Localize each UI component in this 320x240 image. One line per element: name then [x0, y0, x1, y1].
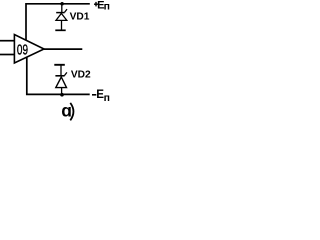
node junction dot VD1 top — [60, 2, 64, 6]
svg-text:п: п — [104, 92, 110, 104]
zener diode VD2 cathode tick — [64, 72, 67, 75]
wire VD2 stem top — [60, 65, 62, 76]
wire input bottom — [0, 54, 14, 56]
wire VD2 stem bottom — [61, 88, 63, 95]
svg-text:VD2: VD2 — [71, 70, 91, 81]
wire bottom rail -En with corner up to op-amp bottom edge — [27, 58, 90, 95]
op-amp U1 triangle — [14, 35, 44, 64]
zener diode VD2 cathode bar — [55, 75, 64, 77]
zener diode VD1 cathode bar — [56, 12, 64, 14]
svg-text:09: 09 — [17, 42, 28, 58]
wire input top — [0, 40, 14, 42]
label -En : minus sign — [92, 94, 96, 96]
zener diode VD1 cathode tick — [65, 9, 68, 12]
label +En : plus sign — [94, 3, 98, 5]
ground bar above VD2 — [54, 64, 65, 66]
node junction dot VD2 bottom — [60, 93, 64, 97]
svg-text:VD1: VD1 — [70, 12, 90, 23]
svg-text:п: п — [104, 1, 110, 13]
ground bar below VD1 — [55, 29, 65, 31]
wire VD1 stem bottom — [61, 21, 63, 31]
zener diode VD1 triangle — [56, 13, 67, 20]
wire VD1 stem top — [61, 4, 63, 13]
wire output — [44, 48, 82, 50]
zener diode VD2 triangle — [56, 77, 67, 88]
wire top rail +En with corner down to op-amp top edge — [26, 4, 90, 40]
